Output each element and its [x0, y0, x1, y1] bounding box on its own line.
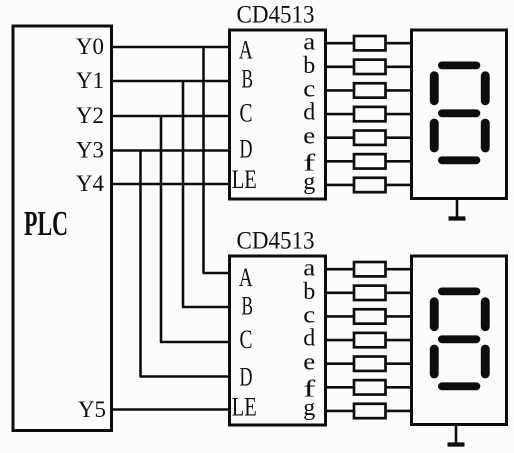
wire R2x-b lead left: [324, 292, 355, 295]
resistor R3: [354, 83, 386, 97]
DS2 segment a: [438, 288, 480, 296]
7-segment display DS2 box: [412, 256, 507, 425]
wire R1x-d lead right: [385, 113, 413, 116]
wire R2x-b lead right: [385, 292, 413, 295]
wire R1x-b lead left: [324, 66, 355, 69]
svg-text:D: D: [240, 363, 253, 392]
PLC box: [13, 26, 112, 431]
DS1 segment g: [438, 109, 480, 117]
wire R1x-e lead right: [385, 136, 413, 139]
DS2 segment c: [481, 345, 490, 379]
DS2 segment f: [430, 297, 439, 331]
wire branch Y2 down to bottom CD4513 C: [160, 115, 231, 342]
wire R2x-d lead right: [385, 339, 413, 342]
svg-text:d: d: [303, 99, 315, 125]
svg-text:a: a: [303, 29, 315, 55]
resistor R11: [354, 333, 386, 347]
resistor R5: [354, 131, 386, 145]
svg-text:Y2: Y2: [76, 103, 104, 128]
svg-text:c: c: [303, 76, 315, 102]
DS1 segment d: [438, 156, 480, 164]
resistor R8: [354, 262, 386, 276]
wire R1x-g lead right: [385, 184, 413, 187]
wire branch Y0 down to bottom CD4513 A: [203, 46, 232, 273]
wire Y3 to top CD4513 D: [110, 149, 231, 152]
resistor R10: [354, 309, 386, 323]
svg-text:CD4513: CD4513: [237, 228, 315, 255]
wire Y5 to bottom CD4513 LE: [110, 408, 231, 411]
wire R1x-f lead left: [324, 160, 355, 163]
svg-text:Y1: Y1: [76, 68, 104, 93]
wire R2x-a lead left: [324, 268, 355, 271]
resistor R12: [354, 357, 386, 371]
svg-text:LE: LE: [232, 393, 257, 422]
resistor R6: [354, 154, 386, 168]
wire R2x-c lead left: [324, 315, 355, 318]
wire R2x-c lead right: [385, 315, 413, 318]
wire R2x-d lead left: [324, 339, 355, 342]
svg-text:CD4513: CD4513: [237, 2, 315, 29]
wire R1x-b lead right: [385, 66, 413, 69]
resistor R9: [354, 286, 386, 300]
IC U2 CD4513 box: [230, 256, 326, 425]
svg-text:C: C: [240, 325, 253, 354]
wire R2x-a lead right: [385, 268, 413, 271]
svg-text:g: g: [303, 395, 315, 421]
DS1 segment b: [481, 71, 490, 105]
svg-text:d: d: [303, 325, 315, 351]
resistor R4: [354, 107, 386, 121]
svg-text:Y4: Y4: [76, 171, 104, 196]
svg-text:D: D: [240, 135, 253, 164]
wire branch Y1 down to bottom CD4513 B: [182, 80, 231, 307]
DS1 segment a: [438, 62, 480, 70]
wire Y1 to top CD4513 B: [110, 80, 231, 83]
svg-text:b: b: [303, 53, 315, 79]
wire R1x-c lead right: [385, 89, 413, 92]
DS2 segment b: [481, 297, 490, 331]
wire R1x-a lead right: [385, 42, 413, 45]
svg-text:A: A: [239, 263, 253, 292]
svg-text:Y3: Y3: [76, 138, 104, 163]
wire R2x-e lead left: [324, 362, 355, 365]
svg-text:B: B: [242, 65, 254, 94]
IC U1 CD4513 box: [230, 30, 326, 199]
svg-text:PLC: PLC: [24, 204, 68, 243]
ground symbol below DS1: [449, 199, 466, 219]
svg-text:Y5: Y5: [78, 397, 106, 422]
wire R1x-d lead left: [324, 113, 355, 116]
wire R2x-g lead right: [385, 410, 413, 413]
DS1 segment f: [430, 71, 439, 105]
wire R2x-f lead right: [385, 386, 413, 389]
DS1 segment c: [481, 119, 490, 153]
svg-text:A: A: [239, 36, 253, 65]
svg-text:e: e: [303, 124, 315, 150]
svg-text:Y0: Y0: [76, 34, 104, 59]
DS2 segment e: [430, 345, 439, 379]
svg-text:b: b: [303, 279, 315, 305]
svg-text:LE: LE: [232, 165, 257, 194]
ground symbol below DS2: [448, 425, 465, 445]
resistor R7: [354, 178, 386, 192]
wire R1x-f lead right: [385, 160, 413, 163]
svg-text:C: C: [240, 99, 253, 128]
DS2 segment d: [438, 382, 480, 390]
wire R1x-e lead left: [324, 136, 355, 139]
wire R1x-a lead left: [324, 42, 355, 45]
svg-text:B: B: [242, 292, 254, 321]
7-segment display DS1 box: [412, 30, 507, 199]
DS1 segment e: [430, 119, 439, 153]
resistor R2: [354, 60, 386, 74]
wire R1x-c lead left: [324, 89, 355, 92]
wire Y0 to top CD4513 A: [110, 46, 231, 49]
wire R2x-g lead left: [324, 410, 355, 413]
svg-text:g: g: [303, 169, 315, 195]
wire Y4 to top CD4513 LE: [110, 183, 231, 186]
DS2 segment g: [438, 335, 480, 343]
resistor R14: [354, 404, 386, 418]
wire R2x-e lead right: [385, 362, 413, 365]
svg-text:e: e: [303, 350, 315, 376]
svg-text:a: a: [303, 255, 315, 281]
wire R1x-g lead left: [324, 184, 355, 187]
resistor R13: [354, 380, 386, 394]
wire branch Y3 down to bottom CD4513 D: [140, 150, 232, 377]
svg-text:c: c: [303, 302, 315, 328]
wire R2x-f lead left: [324, 386, 355, 389]
resistor R1: [354, 36, 386, 50]
wire Y2 to top CD4513 C: [110, 115, 231, 118]
